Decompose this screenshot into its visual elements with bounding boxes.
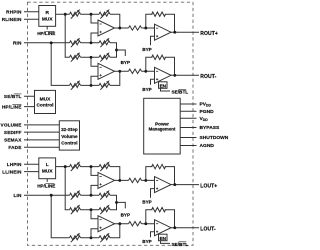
svg-text:RHPIN: RHPIN [6, 10, 22, 15]
svg-text:SEMAX: SEMAX [4, 138, 22, 143]
svg-text:R: R [45, 10, 49, 16]
svg-text:HP/LINE: HP/LINE [37, 184, 55, 189]
svg-text:HP/LINE: HP/LINE [37, 31, 55, 36]
svg-text:FADE: FADE [8, 145, 21, 150]
svg-text:MUX: MUX [40, 96, 51, 102]
svg-text:VOLUME: VOLUME [1, 123, 22, 128]
svg-text:Volume: Volume [61, 134, 78, 139]
svg-text:LLINEIN: LLINEIN [2, 169, 22, 174]
svg-text:Control: Control [61, 140, 77, 145]
svg-text:L: L [46, 162, 49, 168]
svg-text:RLINEIN: RLINEIN [2, 17, 22, 22]
svg-text:SE/BTL: SE/BTL [4, 94, 22, 99]
svg-text:MUX: MUX [42, 16, 53, 22]
svg-text:Control: Control [36, 103, 53, 109]
svg-text:ROUT+: ROUT+ [200, 31, 218, 37]
svg-text:MUX: MUX [42, 169, 53, 175]
svg-text:ROUT-: ROUT- [200, 74, 216, 80]
svg-text:AGND: AGND [200, 143, 215, 149]
svg-text:HP/LINE: HP/LINE [2, 104, 22, 109]
svg-text:Management: Management [149, 127, 176, 132]
svg-text:SHUTDOWN: SHUTDOWN [200, 135, 229, 141]
svg-text:32-Step: 32-Step [61, 127, 78, 132]
svg-text:LOUT-: LOUT- [200, 227, 216, 233]
svg-text:LOUT+: LOUT+ [200, 184, 217, 190]
svg-text:PGND: PGND [200, 109, 215, 115]
svg-text:LIN: LIN [13, 193, 21, 198]
svg-text:RIN: RIN [13, 41, 22, 46]
svg-text:SEDIFF: SEDIFF [4, 130, 22, 135]
svg-text:LHPIN: LHPIN [7, 162, 22, 167]
svg-text:BYPASS: BYPASS [200, 125, 220, 131]
